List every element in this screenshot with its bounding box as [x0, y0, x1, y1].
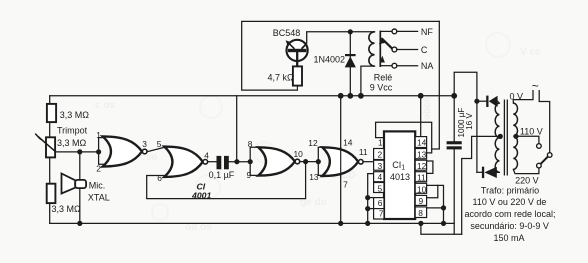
svg-text:3: 3 — [378, 161, 383, 171]
svg-text:16 V: 16 V — [465, 113, 474, 130]
relay arrow 1 — [379, 37, 385, 44]
wire relay contact NA — [380, 65, 392, 67]
svg-text:C: C — [421, 45, 428, 55]
wire R3 to bottom rail — [49, 203, 51, 223]
wire 4013 pin6 stub — [368, 197, 374, 199]
capacitor C1 1000uF — [447, 141, 462, 149]
wire G3 out to G4 bracket — [300, 161, 318, 163]
wire G1 input bracket — [99, 138, 104, 165]
svg-text:150 mA: 150 mA — [493, 233, 524, 243]
svg-text:3,3 MΩ: 3,3 MΩ — [52, 204, 82, 214]
wire transformer return — [421, 223, 462, 234]
gate pin numbers — [96, 130, 368, 189]
wire primary top to plug — [513, 91, 533, 104]
junction cap C2 output node — [234, 159, 239, 164]
4013 pin numbers — [378, 137, 427, 218]
wire C to label — [397, 49, 418, 51]
svg-text:V cc: V cc — [520, 47, 541, 58]
wire trimpot wiper to G1 — [55, 151, 99, 153]
svg-text:11: 11 — [359, 147, 368, 157]
svg-text:3,3 MΩ: 3,3 MΩ — [57, 138, 87, 148]
junction rail / 4001 pin14 — [338, 93, 344, 99]
wire bottom diode to secondary — [497, 171, 500, 173]
wire to top rect diode — [477, 100, 487, 102]
junction G4 inputs node — [316, 159, 321, 164]
svg-text:14: 14 — [343, 138, 353, 148]
wire bottom rail 0V — [50, 222, 455, 224]
svg-text:4013: 4013 — [390, 172, 410, 182]
transformer T1 core — [503, 100, 505, 176]
svg-text:6: 6 — [378, 198, 383, 208]
trimpot body — [46, 137, 55, 157]
svg-text:BC548: BC548 — [273, 28, 301, 38]
wire 4013 pin10 to bottom rail — [427, 185, 444, 223]
svg-text:220 V: 220 V — [515, 175, 539, 185]
relay armature bar — [379, 31, 381, 67]
resistor R2 4,7 kohm — [293, 66, 302, 85]
svg-text:8: 8 — [248, 139, 253, 149]
relay moving arm — [382, 38, 393, 48]
diode D3 rectifier bottom — [482, 167, 497, 178]
svg-text:4: 4 — [378, 172, 383, 182]
NOR gate G3 4001c (pins 8,9 -> 10) — [258, 147, 299, 175]
junction G1 inputs node — [96, 149, 101, 154]
wire rail to 4013 pin14 — [420, 96, 422, 137]
svg-text:4: 4 — [204, 150, 209, 160]
svg-text:Trafo: primário: Trafo: primário — [481, 185, 539, 195]
wire 4013 pin12 to pin11 — [427, 161, 433, 173]
wire collector line to relay — [307, 31, 375, 33]
wire top diode to secondary — [498, 101, 500, 103]
wire 4001 power pins 14-7 — [340, 96, 342, 224]
wire top rail +9V — [50, 95, 455, 97]
relay contact circles NF C NA — [392, 29, 397, 68]
wire pin1 loop over IC — [376, 122, 432, 153]
junction G3 output / feedback tee — [303, 159, 308, 164]
label 1000uF 16V rotated — [457, 108, 474, 138]
svg-text:10: 10 — [417, 184, 427, 194]
svg-text:c os: c os — [95, 100, 115, 111]
wire cap node to top rail — [236, 96, 238, 162]
junction rail / +V from rectifier — [451, 93, 457, 99]
wire 4001 power line overlay through G4 — [340, 147, 342, 176]
transistor Q1 BC548 — [286, 32, 308, 67]
junction bottom rail / transformer return — [418, 221, 423, 226]
resistor R3 3,3 Mohm bottom — [47, 184, 56, 203]
svg-text:3,3 MΩ: 3,3 MΩ — [60, 110, 90, 120]
svg-text:10: 10 — [294, 149, 304, 159]
svg-text:4001: 4001 — [191, 191, 211, 201]
wire 110V tap — [516, 136, 539, 143]
svg-text:1N4002: 1N4002 — [314, 54, 346, 64]
svg-text:11: 11 — [417, 173, 426, 183]
svg-text:7: 7 — [343, 179, 348, 189]
svg-text:9: 9 — [419, 196, 424, 206]
svg-text:14: 14 — [417, 138, 427, 148]
junction bottom rail / pin10 line — [441, 221, 446, 226]
svg-text:0 V: 0 V — [510, 92, 524, 102]
svg-text:~: ~ — [532, 79, 539, 93]
svg-text:Trimpot: Trimpot — [57, 126, 88, 136]
wire box right edge to pin1 loop — [432, 21, 440, 149]
svg-text:5: 5 — [378, 183, 383, 193]
svg-text:3: 3 — [142, 139, 147, 149]
svg-text:2: 2 — [378, 150, 383, 160]
svg-text:8: 8 — [418, 208, 423, 218]
wire G1 out to G2 in5 — [147, 147, 164, 151]
junction rail / 4013 pin14 — [418, 93, 424, 99]
trimpot arrow — [35, 134, 56, 153]
svg-text:4,7 kΩ: 4,7 kΩ — [268, 73, 295, 83]
wire to bottom rect diode — [477, 171, 482, 173]
junction trimpot wiper / mic node — [77, 149, 82, 154]
wire 4013 pin8 — [427, 207, 444, 209]
svg-text:7: 7 — [379, 209, 384, 219]
svg-text:Relé: Relé — [374, 73, 393, 83]
wire plug right prong to switch — [539, 91, 550, 153]
wire left branch top — [49, 96, 51, 104]
microphone MIC crystal — [62, 174, 87, 194]
wire NF to label — [397, 30, 418, 32]
svg-text:13: 13 — [417, 149, 427, 159]
svg-text:Mic.: Mic. — [89, 181, 106, 191]
wire feedback G3 out to G2 in6 — [147, 162, 306, 199]
wire R1 to trimpot — [49, 122, 51, 137]
wire BC548 box: resistor bottom, left and top edges — [242, 21, 440, 90]
svg-text:110 V ou 220 V de: 110 V ou 220 V de — [473, 197, 547, 207]
wire G4 input bracket — [318, 147, 322, 175]
NOR gate G2 4001b (pins 5,6 -> 4) — [164, 147, 207, 177]
wire center tap return — [462, 136, 500, 234]
IC CI1 4013 body — [384, 131, 415, 219]
wire G3 input bracket — [250, 147, 258, 175]
faint page bleed-through rings (decorative) — [152, 33, 510, 220]
wire rail to 1000uF — [453, 96, 455, 141]
transformer note text — [464, 185, 555, 243]
svg-text:9 Vcc: 9 Vcc — [370, 83, 393, 93]
wire trimpot to R3 — [49, 157, 51, 183]
label CI1 4013 inside IC — [390, 160, 410, 182]
diode D1 1N4002 — [345, 54, 356, 67]
svg-text:2: 2 — [96, 163, 101, 173]
svg-text:6: 6 — [157, 173, 162, 183]
svg-text:XTAL: XTAL — [88, 192, 110, 202]
svg-text:1: 1 — [378, 137, 383, 147]
svg-text:secundário: 9-0-9 V: secundário: 9-0-9 V — [470, 221, 549, 231]
wire primary bottom to switch — [513, 168, 539, 174]
junction bottom rail / 4013 pin4-6 line — [365, 221, 370, 226]
junction collector line / diode D1 — [348, 29, 353, 34]
wire 4013 pin10 to pin9 — [427, 185, 438, 197]
svg-text:12: 12 — [308, 138, 318, 148]
wire 1000uF bottom — [453, 149, 455, 234]
voltage selector switch S1 arm — [541, 157, 548, 164]
voltage selector switch S1 contacts — [537, 144, 552, 168]
junction bottom rail / 4001 pin7 — [338, 221, 343, 226]
NOR gate G4 4001d (pins 12,13 -> 11) — [322, 147, 363, 176]
junction primary 110V tap — [513, 134, 518, 139]
svg-text:1: 1 — [96, 130, 101, 140]
resistor R1 3,3 Mohm — [47, 104, 56, 122]
transformer T1 secondary winding — [495, 103, 499, 172]
wire mic branch — [79, 152, 81, 224]
wire diode 1N4002 branch — [349, 32, 351, 96]
svg-text:5: 5 — [157, 139, 162, 149]
wire 4013 pin4 to ground line — [368, 174, 374, 224]
junction 4013 pin7 — [365, 206, 370, 211]
4013 pin boxes left — [374, 149, 384, 220]
svg-text:9: 9 — [247, 170, 252, 180]
wire NA to label — [397, 65, 418, 67]
junction rail / relay coil — [358, 93, 364, 99]
transformer T1 primary winding — [513, 103, 517, 169]
wire diode join vertical — [476, 101, 478, 172]
capacitor C2 0,1 uF — [217, 156, 229, 169]
wire +V link to rectifier — [454, 72, 477, 101]
svg-text:13: 13 — [309, 172, 319, 182]
wire G2 out to cap — [208, 161, 217, 163]
svg-text:acordo com rede local;: acordo com rede local; — [464, 209, 555, 219]
wire relay contact NF — [380, 30, 392, 32]
junction 4013 pin6 — [365, 195, 370, 200]
svg-text:12: 12 — [417, 161, 427, 171]
diode D2 rectifier top — [486, 96, 497, 107]
svg-text:110 V: 110 V — [520, 127, 543, 137]
wire 4013 pin7 stub — [368, 208, 374, 210]
junction bottom rail / mic — [77, 221, 82, 226]
svg-text:0,1 µF: 0,1 µF — [209, 170, 235, 180]
label CI 4001 — [191, 181, 211, 200]
svg-text:obce: obce — [422, 96, 433, 120]
wire G4 out to 4013 pin3 — [363, 161, 373, 163]
wire cap to G3 bracket — [229, 161, 250, 163]
junction G3 inputs node — [248, 159, 253, 164]
wire relay coil bottom to rail — [361, 66, 375, 96]
svg-text:NA: NA — [421, 61, 434, 71]
svg-text:NF: NF — [421, 27, 433, 37]
junction rail / diode D1 — [347, 93, 353, 99]
relay arrow 2 — [380, 56, 385, 63]
junction secondary center tap — [498, 134, 503, 139]
NOR gate G1 4001a (pins 1,2 -> 3) — [103, 136, 147, 166]
relay K1 coil — [369, 32, 375, 66]
junction 4013 pin8 line — [441, 205, 446, 210]
junction rectifier +V node — [474, 99, 479, 104]
faint page bleed-through text (decorative) — [95, 47, 541, 233]
4013 pin boxes right — [415, 137, 426, 218]
